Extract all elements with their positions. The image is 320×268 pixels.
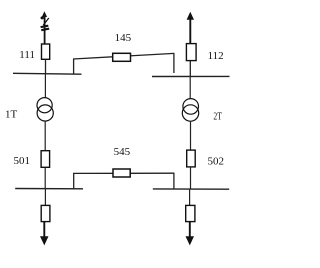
disconnector 112 <box>186 44 196 61</box>
wire 111 to upper-left bus <box>45 59 47 74</box>
incoming overhead line arrow (left feeder) <box>42 11 47 44</box>
coupler disconnector 145 <box>113 53 131 61</box>
wire: horizontal run of bus coupler 145 <box>73 53 174 59</box>
svg-text:545: 545 <box>114 146 131 158</box>
svg-text:502: 502 <box>208 156 225 168</box>
svg-text:145: 145 <box>115 32 132 44</box>
svg-text:2T: 2T <box>213 110 222 122</box>
svg-text:501: 501 <box>14 155 31 167</box>
transformer 2T (two overlapping circles) <box>182 99 198 122</box>
wire lower-left bus to outgoing disconnector <box>44 189 46 206</box>
disconnector 111 <box>42 44 50 59</box>
outgoing disconnector (lower right) <box>186 205 195 221</box>
lightning / tap slashes on left feeder line <box>41 16 50 30</box>
wire: horizontal run of bus coupler 545 <box>73 172 174 174</box>
outgoing feeder arrow (lower right) <box>186 222 195 246</box>
breaker 501 <box>41 151 50 168</box>
wire lower-right bus to outgoing disconnector <box>189 189 191 205</box>
wire: right stub of bus coupler 145 (stops just above bus) <box>173 53 175 73</box>
wire 1T to breaker 501 <box>44 121 46 151</box>
breaker 502 <box>187 150 196 167</box>
wire 502 to lower-right bus <box>190 167 192 189</box>
busbar upper-left <box>13 72 82 75</box>
wire 2T to breaker 502 <box>190 121 192 150</box>
svg-text:1T: 1T <box>5 108 18 120</box>
wire upper-right bus to transformer 2T <box>189 77 191 100</box>
wire upper-left bus to transformer 1T <box>44 74 46 98</box>
svg-text:111: 111 <box>19 49 35 61</box>
outgoing disconnector (lower left) <box>41 205 50 221</box>
wire 112 to upper-right bus <box>189 61 191 77</box>
coupler disconnector 545 <box>113 169 130 177</box>
busbar lower-right <box>153 188 229 190</box>
wire: left stub of bus coupler 145 <box>73 59 75 74</box>
busbar upper-right <box>152 75 230 77</box>
svg-text:112: 112 <box>208 50 224 62</box>
wire: right stub of bus coupler 545 <box>173 173 175 189</box>
transformer 1T (two overlapping circles) <box>37 98 53 122</box>
wire 501 to lower-left bus <box>44 167 46 188</box>
busbar lower-left <box>15 188 83 190</box>
outgoing feeder arrow (lower left) <box>40 222 49 246</box>
incoming line arrow (right feeder) <box>187 12 194 44</box>
wire: left stub of bus coupler 545 <box>73 173 75 189</box>
